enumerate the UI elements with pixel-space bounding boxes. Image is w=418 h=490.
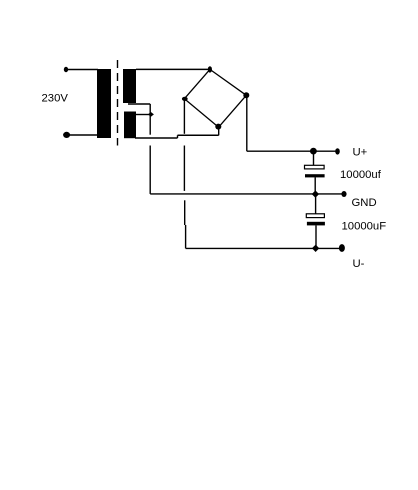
terminal dot GND — [341, 191, 346, 197]
bridge rectifier side top-left — [184, 69, 210, 98]
wire center tap lower horizontal — [136, 114, 150, 116]
wire bridge minus down segment 2 — [183, 146, 185, 191]
wire center tap down upper segment — [149, 115, 151, 135]
transformer T1 secondary upper winding — [123, 69, 136, 103]
capacitor C1 bottom plate — [305, 174, 325, 177]
wire GND to C2 — [315, 194, 317, 214]
wire jog — [177, 135, 179, 138]
wire bridge minus down segment 3 — [184, 200, 186, 225]
wire GND rail — [150, 193, 343, 195]
wire U+ to C1 — [313, 151, 315, 165]
svg-text:U+: U+ — [353, 147, 368, 159]
wire center tap upper horizontal — [128, 103, 150, 105]
node bridge AC1 (top) — [208, 66, 212, 72]
junction center tap — [148, 112, 154, 117]
junction GND — [312, 190, 319, 197]
svg-text:10000uf: 10000uf — [340, 169, 382, 181]
node bridge plus (right) — [243, 92, 249, 98]
wire up to bridge AC2 — [218, 127, 220, 135]
capacitor C2 bottom plate — [307, 222, 325, 226]
wire center tap down lower segment — [149, 146, 151, 194]
terminal dot U+ — [335, 148, 340, 154]
wire secondary bottom horizontal left segment — [135, 137, 178, 139]
svg-text:GND: GND — [352, 197, 377, 209]
node bridge AC2 (bottom) — [215, 124, 221, 130]
wire center tap vertical joiner — [149, 104, 151, 115]
junction U- — [312, 245, 319, 252]
terminal dot mains N — [63, 132, 70, 138]
capacitor C1 top plate — [305, 165, 325, 169]
wire U- rail — [186, 247, 342, 249]
bridge rectifier side bottom-right — [219, 95, 247, 127]
transformer T1 core (dashed) — [117, 60, 119, 146]
terminal dot mains L — [64, 67, 68, 72]
junction U+ — [310, 148, 317, 155]
wire bridge plus down — [246, 95, 248, 151]
wire bridge minus down segment 1 — [183, 99, 185, 134]
wire C2 to U- rail — [315, 225, 317, 248]
wire secondary top to bridge AC1 — [136, 68, 210, 70]
wire bridge minus down segment 4 — [185, 225, 187, 248]
wire C1 to GND rail — [314, 177, 316, 194]
bridge rectifier side bottom-left — [184, 99, 218, 128]
svg-text:230V: 230V — [42, 93, 69, 105]
wire mains N to primary — [66, 134, 98, 136]
node bridge minus (left) — [182, 97, 188, 101]
transformer T1 secondary lower winding — [124, 112, 136, 139]
wire U+ rail — [247, 150, 338, 152]
capacitor C2 top plate — [306, 214, 324, 218]
terminal dot U- — [339, 244, 345, 252]
wire secondary bottom horizontal right segment — [178, 134, 219, 136]
bridge rectifier side top-right — [210, 69, 246, 95]
svg-text:U-: U- — [353, 258, 365, 270]
transformer T1 primary winding — [97, 69, 111, 138]
wire mains L to primary — [66, 69, 98, 71]
svg-text:10000uF: 10000uF — [342, 221, 387, 233]
